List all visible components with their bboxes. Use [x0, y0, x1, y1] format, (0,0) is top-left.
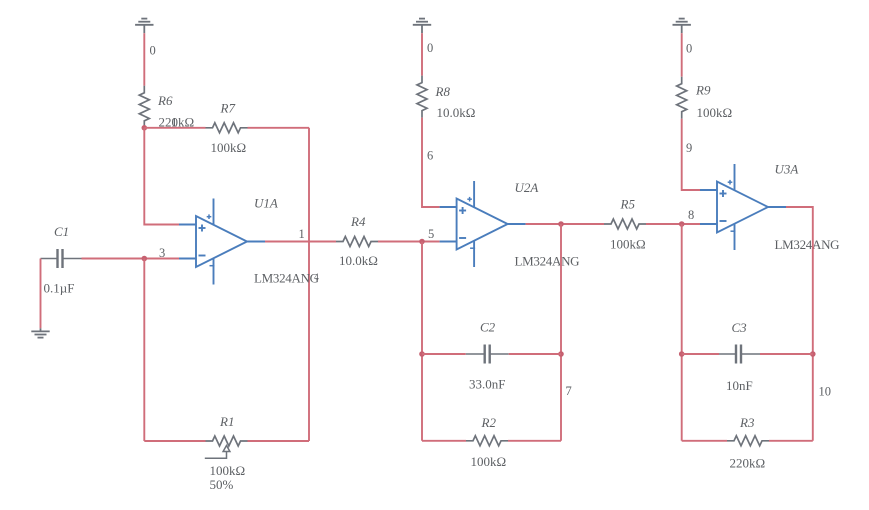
wire node 7 down through C2 right to R2 — [560, 224, 562, 441]
svg-text:6: 6 — [427, 149, 433, 163]
svg-text:R7: R7 — [220, 101, 236, 116]
svg-text:220kΩ: 220kΩ — [730, 456, 766, 471]
wire U2A output to R5 — [526, 223, 604, 225]
svg-text:10: 10 — [819, 385, 832, 399]
potentiometer R1 — [206, 436, 248, 446]
resistor R6 — [139, 86, 149, 128]
wire R2 row — [422, 440, 466, 442]
wire R1 to feedback vertical — [248, 440, 310, 442]
wire U1A output to R4 — [265, 241, 336, 243]
svg-text:U1A: U1A — [254, 196, 278, 211]
svg-text:100kΩ: 100kΩ — [610, 237, 646, 252]
wire R8 to U2A + input — [422, 118, 440, 207]
svg-text:33.0nF: 33.0nF — [469, 377, 505, 392]
svg-text:10.0kΩ: 10.0kΩ — [339, 253, 378, 268]
op-amp U1A — [179, 199, 265, 285]
wire node 5 down through C2 to R2 — [421, 242, 423, 441]
svg-text:9: 9 — [686, 141, 692, 155]
svg-text:1: 1 — [299, 227, 305, 241]
svg-text:LM324ANG: LM324ANG — [254, 271, 319, 286]
svg-text:R5: R5 — [620, 197, 636, 212]
svg-text:10.0kΩ: 10.0kΩ — [437, 105, 476, 120]
svg-text:LM324ANG: LM324ANG — [775, 237, 840, 252]
wire C1 to node 3 and U1A - input — [82, 258, 180, 260]
svg-text:3: 3 — [159, 246, 165, 260]
node 7 junction — [558, 221, 564, 227]
wire to R1 — [144, 440, 205, 442]
wire ground to R8 — [421, 33, 423, 75]
wire junction down to U1A + input — [144, 128, 179, 225]
svg-text:5: 5 — [428, 227, 434, 241]
svg-text:0.1µF: 0.1µF — [44, 281, 75, 296]
ground GND4 (top of R9, inverted) — [673, 19, 691, 34]
wire junction to R7 — [144, 127, 205, 129]
svg-text:100kΩ: 100kΩ — [211, 140, 247, 155]
C3 right junction — [810, 351, 816, 357]
wire node 3 down to R1 row — [143, 259, 145, 442]
svg-text:7: 7 — [566, 384, 572, 398]
ground GND2 (below C1) — [31, 328, 49, 337]
svg-text:R9: R9 — [695, 83, 711, 98]
wire feedback vertical (R7/R1 to output node 1) — [308, 128, 310, 441]
wire ground to R6 — [143, 33, 145, 86]
svg-text:C3: C3 — [732, 320, 748, 335]
wire R5 to node 8 / U3A - input — [646, 223, 700, 225]
svg-text:0: 0 — [150, 44, 156, 58]
svg-text:0: 0 — [686, 42, 692, 56]
svg-text:100kΩ: 100kΩ — [697, 105, 733, 120]
svg-text:LM324ANG: LM324ANG — [515, 254, 580, 269]
svg-text:C2: C2 — [480, 320, 496, 335]
ground GND1 (top of R6, inverted) — [135, 19, 153, 34]
wire R9 to U3A + input — [682, 119, 700, 190]
op-amp U2A — [440, 181, 526, 267]
wire C3 row — [682, 353, 719, 355]
node 3 junction — [142, 256, 148, 262]
wire C2 row — [422, 353, 466, 355]
resistor R9 — [677, 77, 687, 119]
svg-text:10nF: 10nF — [726, 378, 753, 393]
C2 right junction — [558, 351, 564, 357]
svg-text:R1: R1 — [219, 414, 234, 429]
svg-text:C1: C1 — [54, 224, 69, 239]
C3 left junction — [679, 351, 685, 357]
resistor R5 — [604, 219, 646, 229]
node 5 junction — [419, 239, 425, 245]
svg-text:4: 4 — [314, 273, 319, 283]
svg-text:R4: R4 — [350, 214, 366, 229]
resistor R7 — [206, 123, 248, 133]
resistor R2 — [466, 436, 508, 446]
wire R4 to node 5 / U2A - input — [378, 241, 440, 243]
svg-text:U2A: U2A — [515, 180, 539, 195]
capacitor C3 — [719, 345, 760, 364]
capacitor C1 — [41, 249, 82, 268]
C2 left junction — [419, 351, 425, 357]
wire R7 to feedback vertical — [248, 127, 310, 129]
ground GND3 (top of R8, inverted) — [413, 19, 431, 34]
node 8 junction — [679, 221, 685, 227]
resistor R4 — [336, 237, 378, 247]
svg-text:100kΩ: 100kΩ — [471, 454, 507, 469]
op-amp U3A — [700, 164, 786, 250]
resistor R8 — [417, 76, 427, 118]
svg-text:R8: R8 — [435, 84, 451, 99]
svg-text:R3: R3 — [739, 415, 755, 430]
svg-text:R6: R6 — [157, 93, 173, 108]
wire ground to R9 — [681, 33, 683, 76]
svg-text:100kΩ: 100kΩ — [210, 463, 246, 478]
svg-text:U3A: U3A — [775, 162, 799, 177]
wire U3A output down right side — [786, 207, 813, 441]
wire R3 row — [682, 440, 727, 442]
svg-text:50%: 50% — [210, 477, 234, 492]
capacitor C2 — [466, 345, 509, 364]
wire C1 left to ground — [40, 259, 42, 329]
svg-text:0: 0 — [427, 41, 433, 55]
resistor R3 — [727, 436, 769, 446]
wire node 8 down through C3 to R3 — [681, 224, 683, 441]
svg-text:8: 8 — [688, 208, 694, 222]
junction R6/R7/U1A+ — [142, 125, 148, 131]
svg-text:R2: R2 — [481, 415, 497, 430]
